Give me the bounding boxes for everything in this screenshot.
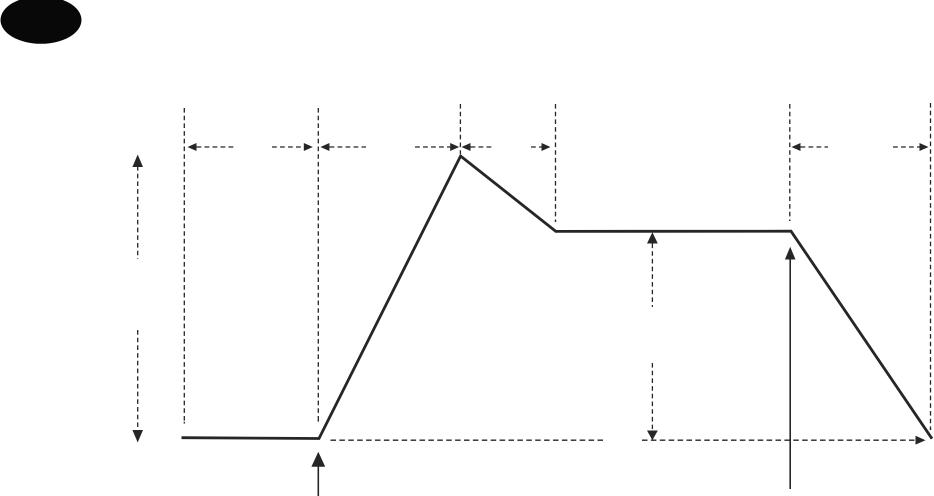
dimension arrow a right shaft <box>272 146 304 148</box>
left vertical double arrow down head <box>132 430 143 443</box>
line1 end dot <box>183 422 185 424</box>
logo ellipse <box>1 0 82 44</box>
solid callout arrow 2 shaft <box>789 258 791 489</box>
dimension arrow a left shaft <box>197 146 237 148</box>
dimension arrow a right head <box>304 143 313 151</box>
dimension arrow b right shaft <box>415 146 451 148</box>
vertical reference line 2 <box>317 108 319 422</box>
dimension arrow c left shaft <box>471 146 494 148</box>
dimension arrow a left head <box>188 143 197 151</box>
bottom dashed baseline right run <box>642 439 916 441</box>
dimension arrow d left shaft <box>801 146 829 148</box>
left vertical double arrow upper shaft <box>137 166 139 259</box>
bottom dashed baseline left run <box>331 439 605 441</box>
middle vertical double arrow up head <box>647 232 658 243</box>
vertical reference line 3 <box>459 104 461 154</box>
dimension arrow d left head <box>792 143 801 151</box>
middle vertical double arrow lower shaft <box>651 363 653 429</box>
vertical reference line 6 <box>930 103 932 430</box>
vertical reference line 4 <box>555 104 557 222</box>
vertical reference line 5 <box>789 104 791 221</box>
dimension arrow b left shaft <box>330 146 367 148</box>
left vertical double arrow lower shaft <box>137 330 139 431</box>
dimension arrow b right head <box>450 143 459 151</box>
line4 end dot <box>555 221 557 222</box>
dimension arrow c left head <box>462 143 471 151</box>
line6 end dot <box>930 429 932 431</box>
dimension arrow b left head <box>320 143 329 151</box>
profile curve <box>182 156 933 439</box>
middle vertical double arrow upper shaft <box>651 244 653 308</box>
bottom baseline arrow head <box>916 436 926 445</box>
dimension arrow c right head <box>542 143 551 151</box>
middle vertical double arrow down head <box>647 431 658 441</box>
line5 end dot <box>789 220 791 221</box>
solid callout arrow 2 head <box>785 247 796 260</box>
solid callout arrow 1 shaft <box>317 466 319 496</box>
vertical reference line 1 <box>183 108 185 424</box>
solid callout arrow 1 head <box>311 452 325 467</box>
line2 end dot <box>317 420 319 421</box>
dimension arrow d right head <box>920 143 929 151</box>
dimension arrow d right shaft <box>893 146 920 148</box>
dimension arrow c right shaft <box>531 146 542 148</box>
left vertical double arrow up head <box>132 155 143 168</box>
